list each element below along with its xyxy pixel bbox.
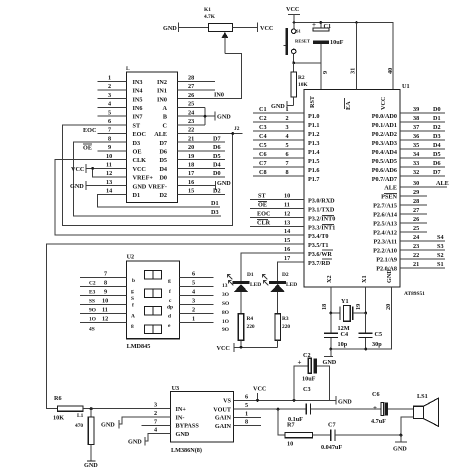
svg-text:D6: D6 <box>159 149 167 156</box>
svg-text:2: 2 <box>154 410 157 417</box>
svg-text:IN4: IN4 <box>133 88 143 95</box>
svg-text:4: 4 <box>108 101 111 108</box>
svg-text:E3: E3 <box>89 290 96 296</box>
svg-text:D7: D7 <box>159 140 167 147</box>
svg-text:5: 5 <box>245 402 248 409</box>
wire crystal ground rail <box>330 348 368 351</box>
svg-text:D6: D6 <box>433 160 441 167</box>
svg-text:8: 8 <box>104 280 107 287</box>
svg-text:P3.4/T0: P3.4/T0 <box>308 233 328 240</box>
wire U3 pin2 IN- to ground <box>101 417 170 429</box>
capacitor C5 30p <box>359 313 382 349</box>
ground flag (L1) <box>84 461 98 469</box>
svg-text:3O: 3O <box>222 292 229 298</box>
svg-text:S1: S1 <box>437 261 444 268</box>
svg-text:C6: C6 <box>372 391 380 398</box>
svg-text:8O: 8O <box>222 310 229 316</box>
wire U3 pin5 VOUT row <box>234 408 307 411</box>
svg-text:BYPASS: BYPASS <box>176 423 200 430</box>
svg-text:P3.1/TXD: P3.1/TXD <box>308 207 335 214</box>
svg-text:P2.1/A9: P2.1/A9 <box>376 257 397 264</box>
svg-text:g: g <box>131 289 134 295</box>
svg-text:C5: C5 <box>259 142 267 149</box>
svg-text:D2: D2 <box>159 192 167 199</box>
svg-text:12: 12 <box>102 316 108 323</box>
svg-text:P0.5/AD5: P0.5/AD5 <box>372 158 397 165</box>
svg-text:9: 9 <box>104 289 107 296</box>
IC U4 ADC0809 <box>126 66 178 203</box>
svg-text:39: 39 <box>413 106 419 113</box>
resistor R3 220 <box>275 314 290 348</box>
svg-text:24: 24 <box>413 234 419 241</box>
svg-text:P2.7/A15: P2.7/A15 <box>373 203 397 210</box>
svg-text:30: 30 <box>413 180 419 187</box>
svg-text:C7: C7 <box>259 160 267 167</box>
svg-text:VCC: VCC <box>71 166 84 173</box>
svg-text:36: 36 <box>413 133 419 140</box>
wire wiper to IN0 <box>178 53 242 98</box>
svg-text:EOC: EOC <box>257 211 270 218</box>
svg-text:D0: D0 <box>159 175 167 182</box>
svg-text:D2: D2 <box>282 272 289 278</box>
svg-text:4: 4 <box>192 289 195 296</box>
svg-text:LED: LED <box>286 282 297 288</box>
svg-text:P1.0: P1.0 <box>308 113 320 120</box>
svg-text:9: 9 <box>322 71 329 74</box>
svg-text:Y1: Y1 <box>341 298 349 305</box>
svg-text:3: 3 <box>192 298 195 305</box>
svg-text:P1.4: P1.4 <box>308 149 320 156</box>
svg-text:P1.6: P1.6 <box>308 167 320 174</box>
wire RST node <box>292 61 321 89</box>
svg-text:21: 21 <box>188 135 194 142</box>
resistor R6 10K <box>53 395 170 422</box>
svg-text:P3.2/INT0: P3.2/INT0 <box>308 216 335 223</box>
svg-text:U1: U1 <box>402 83 410 90</box>
svg-text:4: 4 <box>286 133 289 140</box>
svg-text:32: 32 <box>413 169 419 176</box>
power flag VCC (LED rail) <box>217 343 278 352</box>
svg-text:d: d <box>168 314 171 320</box>
svg-text:D7: D7 <box>433 169 441 176</box>
svg-text:6: 6 <box>192 271 195 278</box>
svg-text:30p: 30p <box>372 341 382 348</box>
svg-text:SO: SO <box>222 301 229 307</box>
svg-text:6: 6 <box>108 118 111 125</box>
svg-text:12: 12 <box>106 170 112 177</box>
svg-text:7: 7 <box>154 418 157 425</box>
U1 right pins 39-32 wires with net labels D0-D7 <box>400 106 445 176</box>
svg-text:VS: VS <box>223 398 231 405</box>
svg-text:11: 11 <box>102 307 108 314</box>
svg-text:10uF: 10uF <box>302 376 316 383</box>
svg-text:VREF-: VREF- <box>148 183 167 190</box>
svg-text:C2: C2 <box>259 115 267 122</box>
svg-text:22: 22 <box>188 127 194 134</box>
svg-text:9O: 9O <box>89 308 96 314</box>
svg-text:R6: R6 <box>54 395 62 402</box>
resistor R7 10 (zobel) <box>278 409 330 447</box>
wire U1 pin15 row to audio input (long left rectangle) <box>46 244 304 409</box>
svg-text:D2: D2 <box>433 124 441 131</box>
svg-text:S3: S3 <box>437 243 444 250</box>
svg-text:IN+: IN+ <box>176 406 187 413</box>
svg-text:P0.4/AD4: P0.4/AD4 <box>372 149 397 156</box>
svg-text:VCC: VCC <box>217 345 230 352</box>
svg-text:17: 17 <box>284 255 290 262</box>
svg-text:K1: K1 <box>204 7 211 13</box>
svg-text:3: 3 <box>154 402 157 409</box>
svg-text:D3: D3 <box>433 133 441 140</box>
svg-text:CLK: CLK <box>133 157 147 164</box>
speaker LS1 <box>401 393 439 435</box>
svg-text:D1: D1 <box>211 200 219 207</box>
svg-text:0.047uF: 0.047uF <box>321 444 342 451</box>
svg-text:28: 28 <box>188 75 194 82</box>
svg-text:20: 20 <box>385 304 392 310</box>
svg-text:L1: L1 <box>77 413 84 419</box>
IC U3 LM386 <box>170 385 233 454</box>
ground flag (left of potentiometer K1) <box>163 23 209 33</box>
svg-text:ALE: ALE <box>384 185 397 192</box>
U1 bottom pin stubs X2 X1 GND with rotated numbers 18 19 20 <box>321 287 392 349</box>
svg-text:P0.7/AD7: P0.7/AD7 <box>372 176 397 183</box>
U1 right pin 30 ALE and 29 PSEN stubs <box>400 180 449 196</box>
svg-text:OE: OE <box>83 144 92 151</box>
svg-text:GND: GND <box>176 431 190 438</box>
svg-text:D7: D7 <box>213 135 221 142</box>
wire D3 (pin8) net <box>74 135 221 216</box>
svg-text:P1.7: P1.7 <box>308 176 320 183</box>
svg-text:R7: R7 <box>287 422 295 429</box>
svg-text:P0.3/AD3: P0.3/AD3 <box>372 140 397 147</box>
svg-text:7: 7 <box>104 271 107 278</box>
svg-text:VCC: VCC <box>380 97 387 110</box>
U4 left pins 1-5 stubs <box>98 75 127 117</box>
svg-text:25: 25 <box>413 225 419 232</box>
svg-text:6: 6 <box>245 394 248 401</box>
svg-text:11: 11 <box>284 202 290 209</box>
svg-text:19: 19 <box>188 153 194 160</box>
svg-text:10: 10 <box>284 193 290 200</box>
svg-text:L: L <box>126 66 130 72</box>
svg-text:P3.5/T1: P3.5/T1 <box>308 242 328 249</box>
svg-text:D1: D1 <box>433 115 441 122</box>
svg-text:16: 16 <box>284 246 290 253</box>
wire D1 (pin14) net <box>98 188 221 207</box>
svg-text:D3: D3 <box>133 140 141 147</box>
svg-text:VCC: VCC <box>253 386 266 393</box>
svg-text:+: + <box>298 359 302 367</box>
svg-text:33: 33 <box>413 160 419 167</box>
U4 pins 25,24,23 A B C tied to ground <box>178 101 232 125</box>
svg-text:14: 14 <box>106 188 112 195</box>
ground flag (speaker node) <box>393 435 407 452</box>
power flag VCC (U4 pins 11,12) <box>71 162 127 178</box>
svg-text:ALE: ALE <box>436 180 449 187</box>
svg-text:1: 1 <box>286 106 289 113</box>
display U2 LMD845 <box>127 254 180 351</box>
svg-text:2: 2 <box>192 307 195 314</box>
svg-text:U3: U3 <box>172 385 180 392</box>
svg-text:8: 8 <box>245 419 248 426</box>
U4 data bus wires D7-D0 with labels <box>178 135 225 177</box>
svg-text:C7: C7 <box>328 422 336 429</box>
svg-text:14: 14 <box>284 228 290 235</box>
svg-text:7: 7 <box>286 160 289 167</box>
ground flag (crystal) <box>323 349 337 366</box>
svg-text:20: 20 <box>188 144 194 151</box>
svg-text:P0.1/AD1: P0.1/AD1 <box>372 122 397 129</box>
crystal Y1 12M <box>330 298 368 332</box>
svg-text:24: 24 <box>188 109 194 116</box>
svg-text:38: 38 <box>413 115 419 122</box>
wire ST (pin6) to ALE (pin22) loop <box>62 118 242 226</box>
U1 right pins 28-25 stubs <box>400 198 427 232</box>
svg-text:5: 5 <box>286 142 289 149</box>
U4 pin15 D2 wire <box>178 188 225 195</box>
svg-text:g: g <box>168 278 171 284</box>
svg-text:AT89S51: AT89S51 <box>404 291 425 297</box>
svg-text:+: + <box>373 404 377 412</box>
svg-text:CLR: CLR <box>257 220 271 227</box>
U3 left pin numbers <box>154 402 157 434</box>
capacitor C2 10uF (bypass) <box>294 352 329 400</box>
potentiometer K1 4.7K <box>204 7 233 53</box>
svg-text:31: 31 <box>350 68 357 74</box>
svg-text:21: 21 <box>413 261 419 268</box>
wire U3 pin4 GND <box>128 434 170 446</box>
svg-text:ALE: ALE <box>154 131 167 138</box>
svg-text:D1: D1 <box>247 272 254 278</box>
svg-text:PSEN: PSEN <box>381 194 397 201</box>
svg-text:5: 5 <box>192 280 195 287</box>
svg-text:ST: ST <box>258 193 266 200</box>
svg-text:A: A <box>131 314 135 320</box>
svg-text:P0.6/AD6: P0.6/AD6 <box>372 167 397 174</box>
svg-text:VCC: VCC <box>286 6 299 13</box>
svg-text:4S: 4S <box>89 327 95 333</box>
svg-text:220: 220 <box>282 324 290 330</box>
U3 pin7 BYPASS stub <box>142 424 171 426</box>
svg-text:P2.4/A12: P2.4/A12 <box>373 230 397 237</box>
capacitor C4 10p <box>324 313 348 349</box>
svg-text:RESET: RESET <box>295 39 310 44</box>
svg-text:1O: 1O <box>222 319 229 325</box>
ground flag (U4 pin16 VREF-) <box>178 179 232 190</box>
svg-text:18: 18 <box>188 162 194 169</box>
capacitor C3 0.1uF <box>288 386 381 423</box>
U1 right pins 24-21 wires with net labels S4-S1 <box>400 234 445 268</box>
svg-text:R3: R3 <box>282 316 289 322</box>
resistor R2 10K <box>291 63 308 106</box>
svg-text:9: 9 <box>108 144 111 151</box>
svg-text:GND: GND <box>393 446 407 453</box>
svg-text:1: 1 <box>108 75 111 82</box>
svg-text:10p: 10p <box>338 341 348 348</box>
svg-text:P1.1: P1.1 <box>308 122 320 129</box>
svg-text:GND: GND <box>84 462 98 469</box>
svg-text:EOC: EOC <box>83 127 96 134</box>
power flag VCC (reset rail) <box>286 6 300 23</box>
svg-text:10: 10 <box>106 153 112 160</box>
svg-text:D4: D4 <box>213 162 221 169</box>
U4 pin7 EOC wire with label <box>83 127 127 134</box>
ground flag (R2) <box>271 101 294 110</box>
svg-text:10: 10 <box>287 441 293 448</box>
svg-text:IN7: IN7 <box>133 114 143 121</box>
svg-text:23: 23 <box>413 243 419 250</box>
svg-text:f: f <box>169 289 171 295</box>
svg-text:GND: GND <box>338 399 352 406</box>
svg-text:C4: C4 <box>259 133 267 140</box>
svg-text:11: 11 <box>106 162 112 169</box>
svg-text:8: 8 <box>286 169 289 176</box>
svg-text:LMD845: LMD845 <box>127 343 151 350</box>
svg-text:34: 34 <box>413 151 419 158</box>
svg-text:IN0: IN0 <box>214 91 224 98</box>
svg-text:16: 16 <box>188 179 194 186</box>
svg-text:P1.5: P1.5 <box>308 158 320 165</box>
svg-text:R2: R2 <box>298 75 305 81</box>
wire VCC top rail <box>293 21 393 89</box>
svg-text:D4: D4 <box>433 142 441 149</box>
svg-text:b: b <box>132 278 135 284</box>
svg-text:3: 3 <box>108 92 111 99</box>
svg-text:27: 27 <box>413 207 419 214</box>
svg-text:P2.2/A10: P2.2/A10 <box>373 248 397 255</box>
svg-text:OE: OE <box>258 202 267 209</box>
svg-text:7: 7 <box>108 127 111 134</box>
svg-text:GND: GND <box>271 103 285 110</box>
svg-text:8: 8 <box>131 324 134 330</box>
svg-text:OE: OE <box>133 149 142 156</box>
svg-text:C4: C4 <box>341 331 349 338</box>
svg-text:X2: X2 <box>326 275 333 283</box>
svg-text:15: 15 <box>284 237 290 244</box>
svg-text:GND: GND <box>133 183 147 190</box>
svg-text:RST: RST <box>309 95 316 108</box>
svg-text:P3.0/RXD: P3.0/RXD <box>308 198 335 205</box>
svg-text:1: 1 <box>192 316 195 323</box>
svg-text:X1: X1 <box>361 275 368 283</box>
svg-text:5: 5 <box>108 109 111 116</box>
svg-text:26: 26 <box>413 216 419 223</box>
LED D2 <box>263 272 298 314</box>
svg-text:D5: D5 <box>433 151 441 158</box>
svg-text:J2: J2 <box>234 126 240 132</box>
svg-text:10: 10 <box>102 298 108 305</box>
svg-text:13: 13 <box>284 220 290 227</box>
svg-text:D0: D0 <box>213 170 221 177</box>
svg-text:ST: ST <box>133 122 141 129</box>
svg-text:P0.2/AD2: P0.2/AD2 <box>372 131 397 138</box>
svg-text:B: B <box>163 114 167 121</box>
svg-text:D0: D0 <box>433 106 441 113</box>
svg-text:P2.5/A13: P2.5/A13 <box>373 221 397 228</box>
U1 left pins 10-13 wires with net labels ST/OE/EOC/CLR <box>250 193 304 263</box>
svg-text:18: 18 <box>321 304 328 310</box>
wire U3 pin6 VS rail with VCC flag and GND end <box>234 386 353 406</box>
svg-text:D5: D5 <box>213 153 221 160</box>
svg-text:220: 220 <box>247 324 255 330</box>
capacitor C7 0.047uF <box>321 422 402 452</box>
svg-text:P1.2: P1.2 <box>308 131 320 138</box>
U2 right pins 6-1 <box>180 271 230 334</box>
svg-text:IN6: IN6 <box>133 105 143 112</box>
svg-text:GND: GND <box>101 422 115 429</box>
svg-text:R4: R4 <box>247 316 254 322</box>
U1 left pins 1-8 wires with net labels C1-C8 <box>253 106 304 176</box>
svg-text:IN2: IN2 <box>157 79 167 86</box>
resistor R4 220 <box>238 314 255 348</box>
svg-text:IN3: IN3 <box>133 79 143 86</box>
svg-text:D1: D1 <box>133 192 141 199</box>
svg-text:A: A <box>163 105 168 112</box>
svg-text:EOC: EOC <box>133 131 146 138</box>
svg-text:C: C <box>163 122 167 129</box>
svg-text:8: 8 <box>108 135 111 142</box>
U1 top pin numbers 9 / 31 / 40 <box>322 23 394 90</box>
svg-text:13: 13 <box>222 283 228 289</box>
svg-text:EA: EA <box>345 101 352 110</box>
svg-text:4: 4 <box>154 427 157 434</box>
svg-text:D6: D6 <box>213 144 221 151</box>
svg-text:S4: S4 <box>437 234 444 241</box>
svg-text:LM386N(8): LM386N(8) <box>171 447 202 454</box>
svg-text:P0.0/AD0: P0.0/AD0 <box>372 113 397 120</box>
pushbutton S1 RESET <box>284 23 311 63</box>
svg-text:17: 17 <box>188 170 194 177</box>
svg-text:470: 470 <box>75 423 83 429</box>
svg-text:P3.6/WR: P3.6/WR <box>308 251 332 258</box>
svg-text:C3: C3 <box>303 386 311 393</box>
wire U1 pin17 to LED D2 <box>278 262 304 281</box>
svg-text:VOUT: VOUT <box>213 406 232 413</box>
svg-text:LS1: LS1 <box>417 393 428 400</box>
svg-text:28: 28 <box>413 198 419 205</box>
svg-text:D3: D3 <box>211 209 219 216</box>
svg-text:U2: U2 <box>127 254 135 261</box>
svg-text:27: 27 <box>188 83 194 90</box>
svg-text:26: 26 <box>188 92 194 99</box>
svg-text:29: 29 <box>413 189 419 196</box>
svg-text:C8: C8 <box>259 169 267 176</box>
svg-text:P1.3: P1.3 <box>308 140 320 147</box>
svg-text:D5: D5 <box>159 157 167 164</box>
svg-text:GND: GND <box>217 114 231 121</box>
U3 right pin numbers <box>234 394 262 426</box>
svg-text:D4: D4 <box>159 166 167 173</box>
svg-text:S1: S1 <box>296 29 302 34</box>
svg-text:VCC: VCC <box>133 166 146 173</box>
ground flag (U4 pin13) <box>70 179 127 190</box>
svg-text:C3: C3 <box>259 124 267 131</box>
svg-text:GND: GND <box>70 183 84 190</box>
power flag VCC (right of K1) <box>233 23 274 33</box>
svg-text:S: S <box>131 296 134 302</box>
svg-text:LED: LED <box>250 282 261 288</box>
svg-text:VCC: VCC <box>260 25 273 32</box>
svg-text:C1: C1 <box>259 106 267 113</box>
svg-text:19: 19 <box>355 304 362 310</box>
svg-text:GND: GND <box>163 25 177 32</box>
svg-text:1: 1 <box>245 410 248 417</box>
svg-text:P2.3/A11: P2.3/A11 <box>373 239 397 246</box>
svg-text:4.7K: 4.7K <box>204 14 216 20</box>
svg-text:37: 37 <box>413 124 419 131</box>
svg-text:15: 15 <box>188 188 194 195</box>
